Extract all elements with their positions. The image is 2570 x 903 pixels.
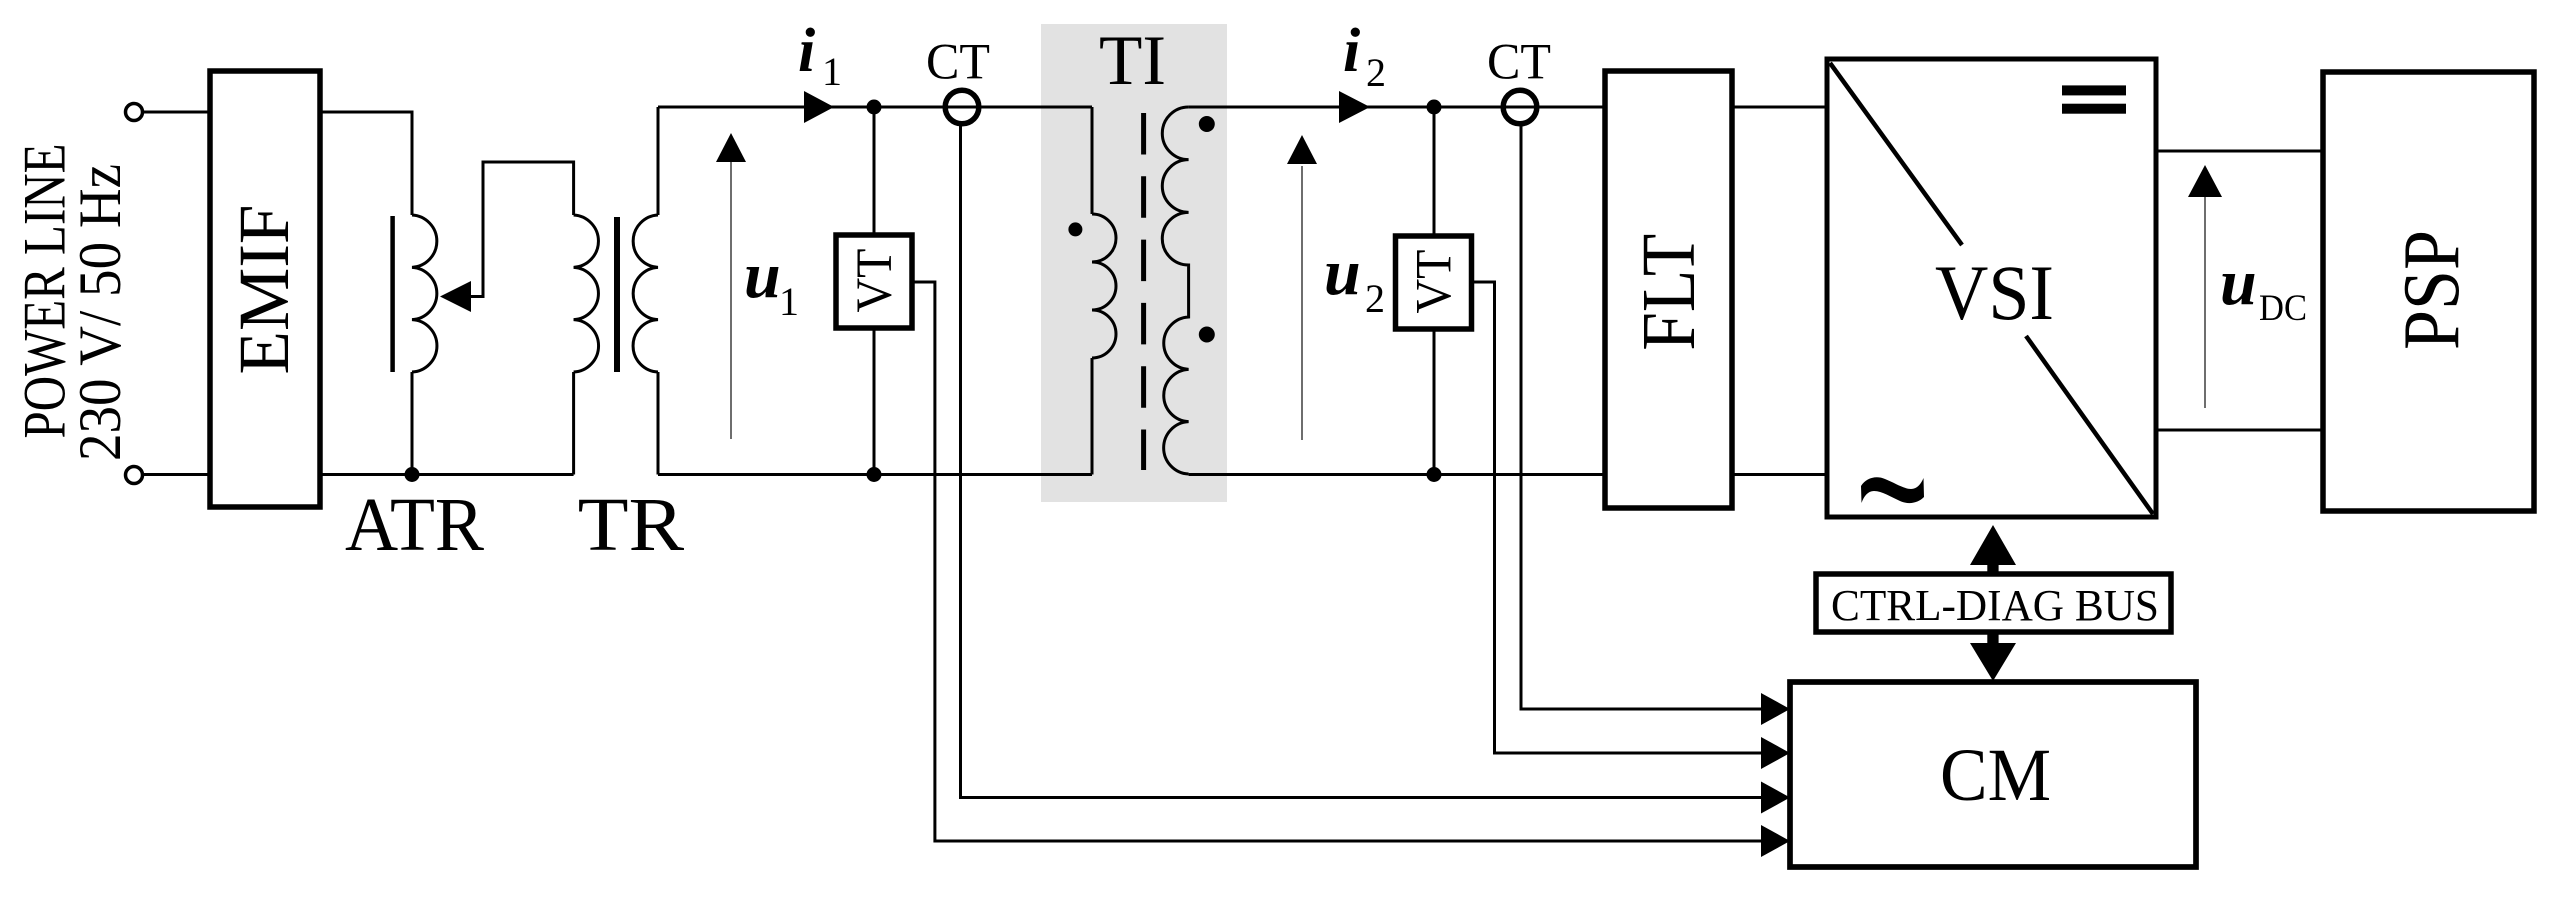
arrow u1 xyxy=(730,160,732,439)
wire VT1 top xyxy=(873,107,876,235)
autotransformer ATR coil xyxy=(412,215,437,372)
transformer TI primary riser top xyxy=(1091,107,1094,214)
junction VT2 top xyxy=(1427,100,1442,115)
wire TR primary bottom xyxy=(572,372,575,475)
block VT2 xyxy=(1396,236,1472,329)
TI secondary polarity dot top xyxy=(1199,116,1215,132)
wire top bus TR to TI xyxy=(658,106,1092,109)
wire TR secondary bottom riser xyxy=(657,372,660,475)
svg-text:EMIF: EMIF xyxy=(224,205,304,375)
wire terminal bottom to EMIF xyxy=(143,473,211,476)
block CTRL-DIAG BUS xyxy=(1816,574,2171,632)
transformer TI primary riser bottom xyxy=(1091,358,1094,475)
block EMIF xyxy=(210,71,320,507)
svg-text:PSP: PSP xyxy=(2388,230,2476,350)
terminal circle bottom xyxy=(126,467,143,484)
CT2 circle xyxy=(1503,90,1537,124)
wire terminal top to EMIF xyxy=(143,111,211,114)
arrowhead i1 xyxy=(804,91,834,123)
VSI dc symbol xyxy=(2062,85,2126,95)
arrowhead i2 xyxy=(1339,91,1370,123)
node TI shaded region xyxy=(1041,24,1227,502)
svg-text:i: i xyxy=(1343,17,1360,85)
wire bottom bus TR to TI xyxy=(658,473,1092,476)
svg-text:2: 2 xyxy=(1366,50,1386,95)
svg-text:230 V/ 50 Hz: 230 V/ 50 Hz xyxy=(67,164,133,461)
VSI diagonal lower xyxy=(2026,336,2153,514)
bus arrow upper shaft xyxy=(1987,561,1998,575)
wire CT2 to CM xyxy=(1521,123,1763,709)
svg-text:u: u xyxy=(2220,246,2257,319)
svg-text:CM: CM xyxy=(1940,734,2051,817)
junction ATR bottom xyxy=(405,467,420,482)
wire top bus FLT to VSI xyxy=(1732,106,1827,109)
transformer TI secondary coil xyxy=(1162,107,1188,474)
svg-text:TI: TI xyxy=(1099,22,1166,100)
transformer TI primary coil xyxy=(1092,214,1116,358)
svg-text:u: u xyxy=(1324,236,1361,309)
svg-text:ATR: ATR xyxy=(345,483,484,567)
bus arrow VSI-CM upper head xyxy=(1970,525,2016,565)
arrow u2 xyxy=(1301,166,1303,440)
svg-text:FLT: FLT xyxy=(1627,234,1711,351)
TI core dashed line xyxy=(1141,113,1146,470)
svg-text:TR: TR xyxy=(578,483,685,567)
terminal circle top xyxy=(126,104,143,121)
autotransformer ATR core bar xyxy=(390,216,395,372)
transformer TR core bar xyxy=(614,217,620,372)
svg-text:1: 1 xyxy=(822,49,842,94)
block FLT xyxy=(1605,71,1732,508)
wire CT1 to CM xyxy=(961,123,1764,798)
TI secondary polarity dot mid xyxy=(1199,327,1215,343)
wire bottom bus TI to FLT xyxy=(1189,473,1605,476)
CT1 circle xyxy=(945,90,979,124)
block VSI xyxy=(1827,59,2156,517)
svg-text:VT: VT xyxy=(1407,250,1463,314)
wire VT2 tap to CM xyxy=(1472,282,1763,753)
wire bottom bus FLT to VSI xyxy=(1732,473,1827,476)
wire VT1 bottom xyxy=(873,328,876,475)
wire top bus TI to FLT xyxy=(1189,106,1605,109)
VSI ac tilde symbol xyxy=(1861,477,1924,503)
TI primary polarity dot xyxy=(1068,222,1082,236)
transformer TR left coil xyxy=(574,215,599,372)
svg-text:CT: CT xyxy=(926,35,990,91)
svg-text:VT: VT xyxy=(847,249,903,313)
VSI diagonal upper xyxy=(1830,63,1962,245)
CM input arrowhead 4 xyxy=(1761,825,1790,857)
wire VSI to PSP top xyxy=(2156,150,2323,153)
wire VSI to PSP bottom xyxy=(2156,429,2323,432)
ATR tap arrowhead xyxy=(440,281,471,312)
svg-text:i: i xyxy=(798,17,815,85)
transformer TR right coil xyxy=(633,215,658,372)
junction VT2 bottom xyxy=(1427,467,1442,482)
svg-text:CT: CT xyxy=(1487,35,1551,91)
CM input arrowhead 1 xyxy=(1761,693,1790,725)
junction VT1 top xyxy=(867,100,882,115)
svg-text:u: u xyxy=(744,239,781,312)
block PSP xyxy=(2323,72,2534,511)
svg-text:2: 2 xyxy=(1365,276,1385,321)
wire VT2 bottom xyxy=(1433,329,1436,475)
bus arrow VSI-CM lower head xyxy=(1970,643,2016,681)
CM input arrowhead 2 xyxy=(1761,737,1790,769)
svg-text:DC: DC xyxy=(2259,288,2307,329)
svg-text:VSI: VSI xyxy=(1935,249,2054,336)
bus arrow lower shaft xyxy=(1987,632,1998,646)
block VT1 xyxy=(836,235,912,328)
wire VT1 tap to CM xyxy=(912,282,1763,841)
ATR tap wire xyxy=(468,162,574,297)
arrow uDC xyxy=(2204,196,2206,408)
wire ATR bottom xyxy=(411,372,414,475)
wire EMIF to TR bottom bus xyxy=(320,473,574,476)
block CM xyxy=(1790,682,2196,867)
svg-text:CTRL-DIAG BUS: CTRL-DIAG BUS xyxy=(1831,581,2159,630)
wire VT2 top xyxy=(1433,107,1436,236)
junction VT1 bottom xyxy=(867,467,882,482)
svg-text:1: 1 xyxy=(779,279,799,324)
wire EMIF to ATR top xyxy=(320,112,412,215)
wire TR secondary top riser xyxy=(657,107,660,215)
CM input arrowhead 3 xyxy=(1761,782,1790,814)
